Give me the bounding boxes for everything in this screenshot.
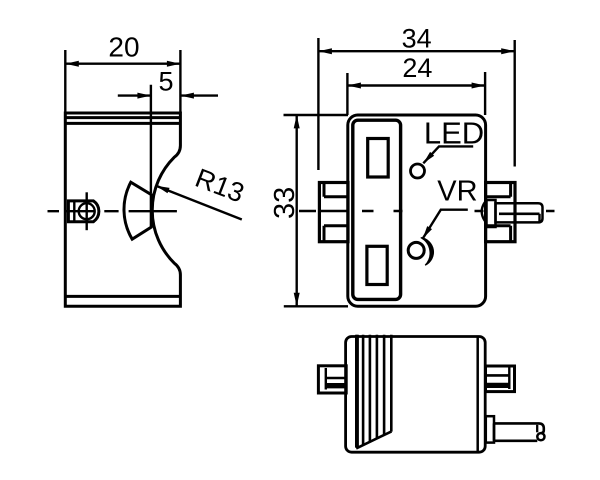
arrow 20 left bbox=[65, 61, 79, 67]
dim 24 line bbox=[347, 84, 485, 86]
left ear outer bbox=[319, 183, 348, 242]
slot inner line bbox=[73, 201, 75, 222]
right ear inner vertical bbox=[509, 183, 512, 242]
VR crescent bbox=[421, 238, 434, 266]
arrow 33 bottom bbox=[294, 293, 300, 307]
dim 33 line bbox=[296, 115, 298, 306]
left panel bbox=[353, 120, 401, 299]
right inner line bbox=[476, 337, 479, 453]
LED circle bbox=[411, 164, 425, 178]
screw slot line bbox=[499, 213, 540, 216]
svg-text:R13: R13 bbox=[191, 163, 248, 209]
svg-text:LED: LED bbox=[424, 116, 484, 151]
arrow 34 right bbox=[501, 48, 515, 54]
svg-text:33: 33 bbox=[269, 187, 301, 219]
bottom right ear slot line bbox=[486, 374, 510, 377]
centerline front view bbox=[299, 210, 555, 212]
outer case bbox=[348, 115, 486, 306]
left ear inner vertical bbox=[323, 183, 326, 242]
arrow LED bbox=[423, 152, 434, 163]
bottom right ear thick bar bbox=[486, 383, 510, 388]
screw end notch bbox=[538, 214, 540, 223]
bottom right ear outer bbox=[486, 366, 515, 392]
body outline with R13 concave cut bbox=[65, 113, 180, 306]
dim 33 extension lines bbox=[284, 115, 349, 306]
LED underline and leader bbox=[423, 146, 473, 163]
cable bbox=[494, 423, 544, 440]
body bbox=[346, 337, 486, 453]
right ear slot lines bbox=[486, 197, 511, 226]
dim 20 line bbox=[65, 63, 180, 65]
svg-text:VR: VR bbox=[437, 176, 477, 208]
mounting hole circle bbox=[79, 203, 95, 219]
arrow 20 right bbox=[167, 61, 181, 67]
screw recess arc bbox=[482, 202, 485, 221]
arrow R13 bbox=[156, 186, 170, 194]
arrow VR bbox=[423, 226, 432, 239]
dim 5 extension line bbox=[150, 85, 152, 193]
dim 24 extension lines bbox=[347, 72, 485, 115]
cable end inner line bbox=[536, 425, 538, 433]
cable end bead bbox=[537, 433, 544, 440]
screw flange bbox=[487, 200, 496, 227]
arrowheads bbox=[65, 48, 514, 306]
bottom left ear slot line bbox=[326, 377, 346, 380]
dim 34 line bbox=[318, 50, 514, 52]
dim 5 arrow lines bbox=[118, 94, 218, 96]
top slot bbox=[368, 139, 389, 178]
screw shaft bbox=[496, 203, 543, 222]
top flange line 2 bbox=[65, 122, 180, 125]
bottom left ear vertical bbox=[325, 368, 327, 390]
bottom base line bbox=[65, 295, 180, 298]
lens bbox=[124, 182, 151, 239]
arrow 5 left bbox=[137, 93, 151, 99]
arrow 24 right bbox=[472, 83, 486, 89]
bottom right ear vertical bbox=[508, 366, 510, 389]
bottom slot bbox=[367, 246, 387, 284]
svg-text:24: 24 bbox=[402, 53, 432, 83]
arrow 5 right bbox=[180, 93, 194, 99]
right ear outer bbox=[486, 183, 515, 242]
svg-text:20: 20 bbox=[108, 32, 139, 63]
dim 34 extension lines bbox=[318, 38, 514, 170]
svg-text:5: 5 bbox=[158, 67, 173, 97]
dim 20 extension lines bbox=[65, 50, 180, 113]
VR circle bbox=[408, 242, 424, 258]
cable boot bbox=[486, 416, 494, 442]
svg-text:34: 34 bbox=[402, 23, 432, 53]
bottom left ear thick bar bbox=[326, 383, 346, 388]
top flange line 1 bbox=[65, 116, 180, 119]
rib diagonal bbox=[356, 431, 391, 448]
arrow 34 left bbox=[318, 48, 332, 54]
crosshair vertical bbox=[85, 192, 87, 230]
mounting slot bbox=[68, 201, 98, 222]
centerline left view bbox=[48, 210, 177, 212]
arrow 24 left bbox=[347, 83, 361, 89]
arrow 33 top bbox=[294, 115, 300, 128]
VR underline and leader bbox=[423, 210, 468, 239]
ribs bbox=[356, 335, 391, 448]
left ear slot lines bbox=[324, 197, 348, 226]
bottom left ear outer bbox=[318, 366, 346, 393]
R13 leader bbox=[156, 186, 242, 220]
rib 1 thick bbox=[356, 335, 359, 447]
